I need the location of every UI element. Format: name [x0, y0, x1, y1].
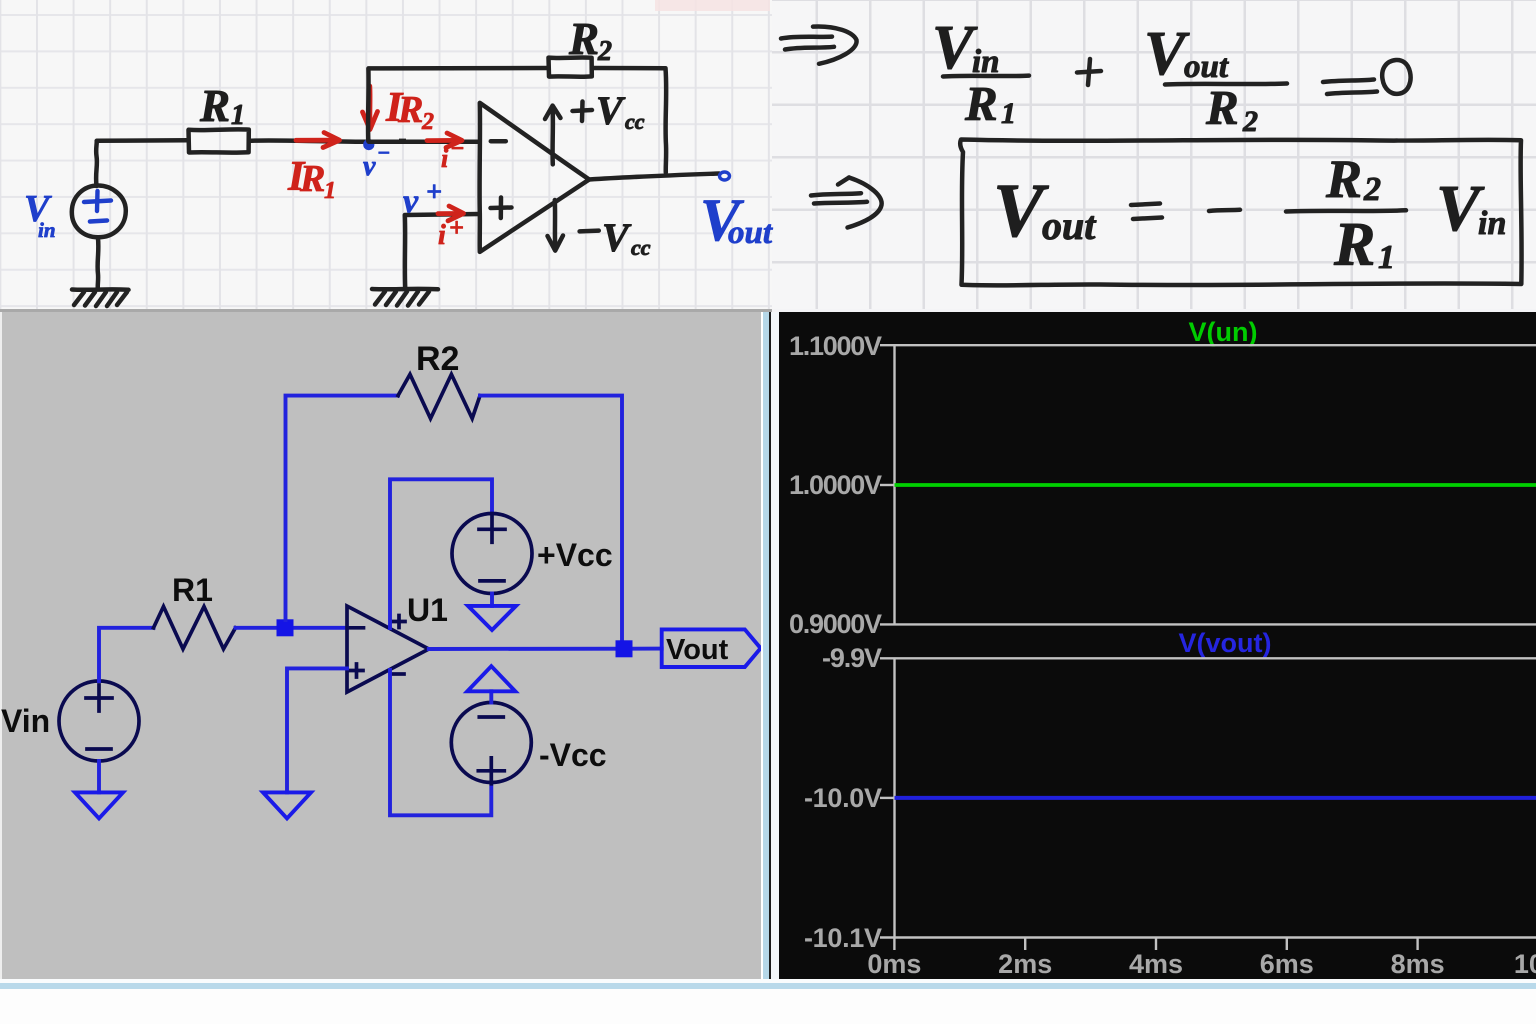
pane 2 frame: left axis: [893, 658, 895, 937]
feedback wire: node up and across: [286, 396, 399, 620]
op-amp positive supply mark: [393, 616, 405, 628]
svg-text:U1: U1: [407, 592, 448, 628]
wire: Vin top to R1: [99, 628, 154, 681]
fraction bar 2: [1165, 84, 1287, 85]
+Vcc supply arrow (up): [545, 106, 561, 165]
svg-text:out: out: [1042, 203, 1097, 248]
svg-text:v: v: [403, 183, 419, 220]
label Vout (blue): [700, 187, 773, 253]
ground under Vin: [75, 761, 123, 818]
ground (hatched) under source: [72, 289, 129, 306]
svg-text:2ms: 2ms: [998, 949, 1052, 979]
pane 2 title V(vout): [1179, 628, 1272, 658]
resistor R1 (hand-drawn box): [189, 129, 249, 152]
label Vin (blue, handwritten): [24, 188, 56, 242]
svg-text:i: i: [438, 220, 446, 251]
denominator R1: [1333, 211, 1395, 279]
feedback wire: R2 to output (right side drop): [592, 68, 666, 173]
svg-text:4ms: 4ms: [1129, 949, 1183, 979]
svg-text:+Vcc: +Vcc: [537, 537, 613, 573]
svg-text:2: 2: [1242, 105, 1258, 138]
output terminal (blue ring): [720, 172, 730, 180]
resistor R2 (hand-drawn box): [549, 58, 592, 77]
label R1 (handwritten): [199, 81, 245, 131]
wire: plus input with left drop to ground: [405, 214, 480, 288]
label i+ (red): [438, 213, 464, 251]
svg-text:2: 2: [1363, 171, 1381, 208]
svg-text:R: R: [1325, 149, 1362, 209]
pane 1 gridline 0.9000V: [880, 623, 1536, 625]
op-amp plus input mark: [350, 664, 363, 677]
label i- (red): [441, 136, 465, 173]
svg-text:+: +: [426, 177, 442, 208]
boxed equation: Vout: [993, 169, 1097, 253]
minus sign at op-amp inverting input: [491, 139, 506, 144]
label R1: [172, 572, 213, 608]
current arrow i- (red): [427, 133, 462, 148]
svg-text:+: +: [449, 213, 464, 242]
label v- (blue): [363, 140, 390, 182]
svg-text:-Vcc: -Vcc: [539, 737, 607, 773]
SVG overlays are appended below: [0, 0, 1536, 312]
label +Vcc: [573, 88, 645, 134]
svg-text:-9.9V: -9.9V: [822, 643, 882, 673]
svg-text:V: V: [602, 215, 632, 260]
svg-text:0ms: 0ms: [867, 949, 921, 979]
trace V(vout) blue: [895, 796, 1536, 800]
junction node at inverting input: [277, 619, 294, 636]
svg-text:cc: cc: [625, 109, 645, 134]
svg-text:R: R: [299, 158, 325, 200]
svg-text:−: −: [450, 136, 465, 162]
svg-text:1: 1: [231, 100, 245, 131]
svg-text:V(un): V(un): [1189, 317, 1258, 347]
op-amp U1 (triangle): [347, 606, 429, 692]
resistor R1: [154, 607, 236, 650]
label R2 (handwritten): [568, 14, 612, 67]
equation 1: Vin/R1: [932, 14, 1000, 82]
label IR2 (red): [385, 85, 434, 135]
svg-text:R: R: [1205, 80, 1239, 135]
equals sign: [1131, 204, 1162, 220]
equals zero: [1323, 80, 1377, 95]
svg-text:0.9000V: 0.9000V: [789, 609, 882, 639]
svg-text:cc: cc: [631, 235, 651, 260]
wire blob on inverting input wire: [399, 139, 406, 144]
equation 1: Vout/R2: [1144, 20, 1229, 88]
pane 2 gridline -9.9V: [880, 657, 1536, 659]
op-amp U1 (hand-drawn triangle): [480, 103, 590, 252]
svg-text:Vout: Vout: [666, 634, 729, 666]
-Vcc supply arrow (down): [548, 200, 564, 251]
svg-text:1: 1: [324, 178, 336, 204]
svg-text:v: v: [363, 151, 376, 182]
voltage source Vin: [59, 681, 139, 761]
pane 2 gridline -10.0V: [880, 797, 895, 799]
label U1: [407, 592, 448, 628]
label IR1 (red): [287, 154, 336, 204]
wire: op-amp output to terminal: [589, 174, 719, 180]
pane 2 gridline -10.1V / time axis: [880, 936, 1536, 938]
current arrow IR2 (red, downward): [363, 86, 378, 130]
feedback wire: R2 to output node: [480, 396, 622, 641]
plus sign at op-amp non-inverting input: [491, 198, 512, 219]
label v+ (blue): [403, 177, 442, 220]
pane 1 gridline 1.0000V: [880, 484, 1536, 486]
pane 1 frame: left axis: [893, 345, 895, 624]
node v- (blue dot): [363, 139, 374, 150]
wire: op-amp output: [429, 647, 662, 651]
positive supply wire: op-amp top to +Vcc: [390, 479, 492, 628]
label -Vcc: [539, 737, 607, 773]
svg-text:R: R: [964, 76, 998, 131]
svg-text:V: V: [993, 169, 1049, 253]
plus sign: [1077, 59, 1101, 85]
negative supply wire: op-amp bottom loop to -Vcc: [390, 670, 491, 815]
voltage source -Vcc: [451, 703, 531, 784]
implication arrow 2: [811, 178, 882, 228]
fraction bar 1: [943, 73, 1029, 78]
svg-text:Vin: Vin: [1, 703, 50, 739]
denominator R2: [1205, 80, 1258, 138]
wire: op-amp + input to ground branch: [287, 668, 347, 792]
svg-text:R1: R1: [172, 572, 213, 608]
svg-text:1: 1: [1001, 97, 1016, 130]
trace V(un) green: [895, 483, 1536, 487]
svg-text:1: 1: [1378, 239, 1395, 276]
ground under + input branch: [263, 792, 311, 818]
current arrow IR1 (red): [296, 133, 340, 148]
Vin (result): [1436, 172, 1506, 245]
svg-text:8ms: 8ms: [1391, 949, 1445, 979]
minus sign: [1209, 210, 1240, 211]
svg-text:R: R: [1333, 211, 1375, 279]
svg-text:1.0000V: 1.0000V: [789, 470, 882, 500]
svg-text:R2: R2: [416, 340, 459, 378]
label R2: [416, 340, 459, 378]
svg-text:V: V: [596, 88, 626, 133]
ground under +Vcc: [468, 606, 516, 630]
svg-text:-10.0V: -10.0V: [804, 783, 882, 813]
svg-text:R: R: [397, 89, 423, 131]
label +Vcc: [537, 537, 613, 573]
wire +Vcc bottom stub: [490, 594, 494, 606]
svg-text:R: R: [199, 81, 230, 131]
svg-text:10ms: 10ms: [1514, 949, 1536, 979]
svg-text:2: 2: [421, 109, 434, 135]
voltage source Vin (hand-drawn circle): [72, 186, 126, 238]
vertical divider between panels: [761, 312, 763, 980]
fraction bar R2/R1: [1286, 210, 1406, 211]
y labels pane 1: [789, 331, 882, 639]
svg-text:in: in: [38, 218, 56, 242]
feedback wire: node up, across to R2: [368, 68, 548, 141]
numerator R2: [1325, 149, 1381, 209]
svg-text:R: R: [568, 14, 599, 64]
flipped ground above -Vcc: [467, 666, 515, 702]
wire: source bottom to ground: [95, 237, 100, 288]
svg-text:out: out: [728, 215, 773, 251]
svg-text:in: in: [1478, 205, 1506, 242]
op-amp negative supply mark: [392, 672, 404, 676]
minus sign inside source (blue): [90, 221, 107, 222]
pane 1 title V(un): [1189, 317, 1258, 347]
plus sign inside source (blue): [84, 191, 111, 211]
junction node at output: [616, 640, 633, 657]
wire: R1 to op-amp minus input: [236, 626, 348, 630]
y labels pane 2: [804, 643, 882, 953]
denominator R1: [964, 76, 1016, 131]
bottom strip: [0, 979, 1536, 983]
label -Vcc: [580, 215, 651, 260]
wire: source top to R1 (with left drop): [96, 140, 188, 186]
svg-text:V(vout): V(vout): [1179, 628, 1272, 658]
label Vin: [1, 703, 50, 739]
time axis ticks: [894, 938, 1536, 951]
op-amp minus input mark: [351, 626, 364, 630]
result box (hand-drawn): [960, 140, 1521, 286]
voltage source +Vcc: [452, 514, 532, 594]
label Vout: [666, 634, 729, 666]
ground (hatched) under plus input: [372, 289, 438, 306]
svg-text:1.1000V: 1.1000V: [789, 331, 882, 361]
pane 1 gridline 1.1000V: [880, 344, 1536, 346]
resistor R2: [398, 374, 480, 418]
implication arrow 1: [781, 26, 857, 63]
svg-text:i: i: [441, 144, 449, 173]
current arrow i+ (red): [438, 206, 464, 221]
wire: node to op-amp minus input: [369, 139, 480, 144]
svg-text:2: 2: [597, 36, 612, 67]
net flag Vout: [662, 629, 761, 667]
wire: R1 to node v-: [249, 140, 369, 141]
svg-text:6ms: 6ms: [1260, 949, 1314, 979]
time axis labels: [867, 949, 1536, 979]
